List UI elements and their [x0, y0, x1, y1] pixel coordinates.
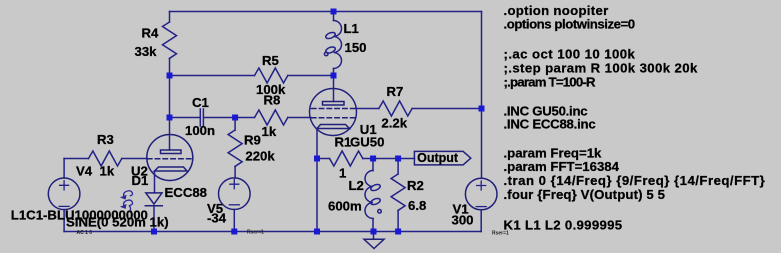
- svg-text:SINE(0 520m 1k): SINE(0 520m 1k): [66, 215, 169, 230]
- svg-text:ECC88: ECC88: [165, 185, 208, 200]
- svg-text:.four {Freq} V(Output) 5 5: .four {Freq} V(Output) 5 5: [504, 187, 666, 202]
- svg-text:;.ac oct 100 10 100k: ;.ac oct 100 10 100k: [504, 47, 636, 62]
- svg-text:R4: R4: [142, 26, 160, 41]
- svg-text:R7: R7: [387, 84, 404, 99]
- svg-text:R9: R9: [244, 133, 261, 148]
- svg-text:1: 1: [339, 166, 346, 181]
- svg-text:1k: 1k: [262, 124, 277, 139]
- svg-text:R1: R1: [335, 135, 352, 150]
- svg-text:C1: C1: [192, 95, 209, 110]
- svg-text:220k: 220k: [245, 149, 275, 164]
- svg-text:L1: L1: [344, 21, 359, 36]
- svg-text:2.2k: 2.2k: [381, 116, 407, 131]
- svg-text:.options plotwinsize=0: .options plotwinsize=0: [504, 17, 635, 32]
- svg-text:Rser=1: Rser=1: [247, 230, 264, 236]
- svg-text:;.param T=100-R: ;.param T=100-R: [504, 75, 597, 90]
- svg-text:L2: L2: [349, 178, 364, 193]
- svg-text:Output: Output: [417, 151, 459, 165]
- svg-text:-34: -34: [207, 211, 227, 226]
- svg-text:.tran 0 {14/Freq} {9/Freq} {14: .tran 0 {14/Freq} {9/Freq} {14/Freq/FFT}: [504, 173, 766, 188]
- svg-text:1k: 1k: [100, 164, 115, 179]
- svg-text:R2: R2: [407, 178, 424, 193]
- svg-text:R3: R3: [97, 132, 114, 147]
- svg-text:R8: R8: [264, 93, 281, 108]
- svg-text:;.step param R 100k 300k 20k: ;.step param R 100k 300k 20k: [504, 61, 698, 76]
- svg-text:.INC ECC88.inc: .INC ECC88.inc: [504, 117, 596, 132]
- svg-text:D1: D1: [132, 173, 149, 188]
- svg-text:K1 L1 L2 0.999995: K1 L1 L2 0.999995: [504, 218, 623, 233]
- svg-text:R5: R5: [262, 53, 279, 68]
- svg-text:6.8: 6.8: [408, 198, 426, 213]
- svg-text:.param FFT=16384: .param FFT=16384: [504, 159, 620, 174]
- svg-text:300: 300: [452, 213, 474, 228]
- svg-text:600m: 600m: [328, 199, 362, 214]
- svg-text:100n: 100n: [185, 123, 215, 138]
- svg-text:AC 1 0: AC 1 0: [77, 230, 93, 236]
- svg-text:V4: V4: [76, 164, 93, 179]
- svg-text:33k: 33k: [135, 44, 158, 59]
- svg-text:.param Freq=1k: .param Freq=1k: [504, 145, 603, 160]
- svg-text:GU50: GU50: [350, 135, 384, 150]
- svg-text:150: 150: [345, 40, 367, 55]
